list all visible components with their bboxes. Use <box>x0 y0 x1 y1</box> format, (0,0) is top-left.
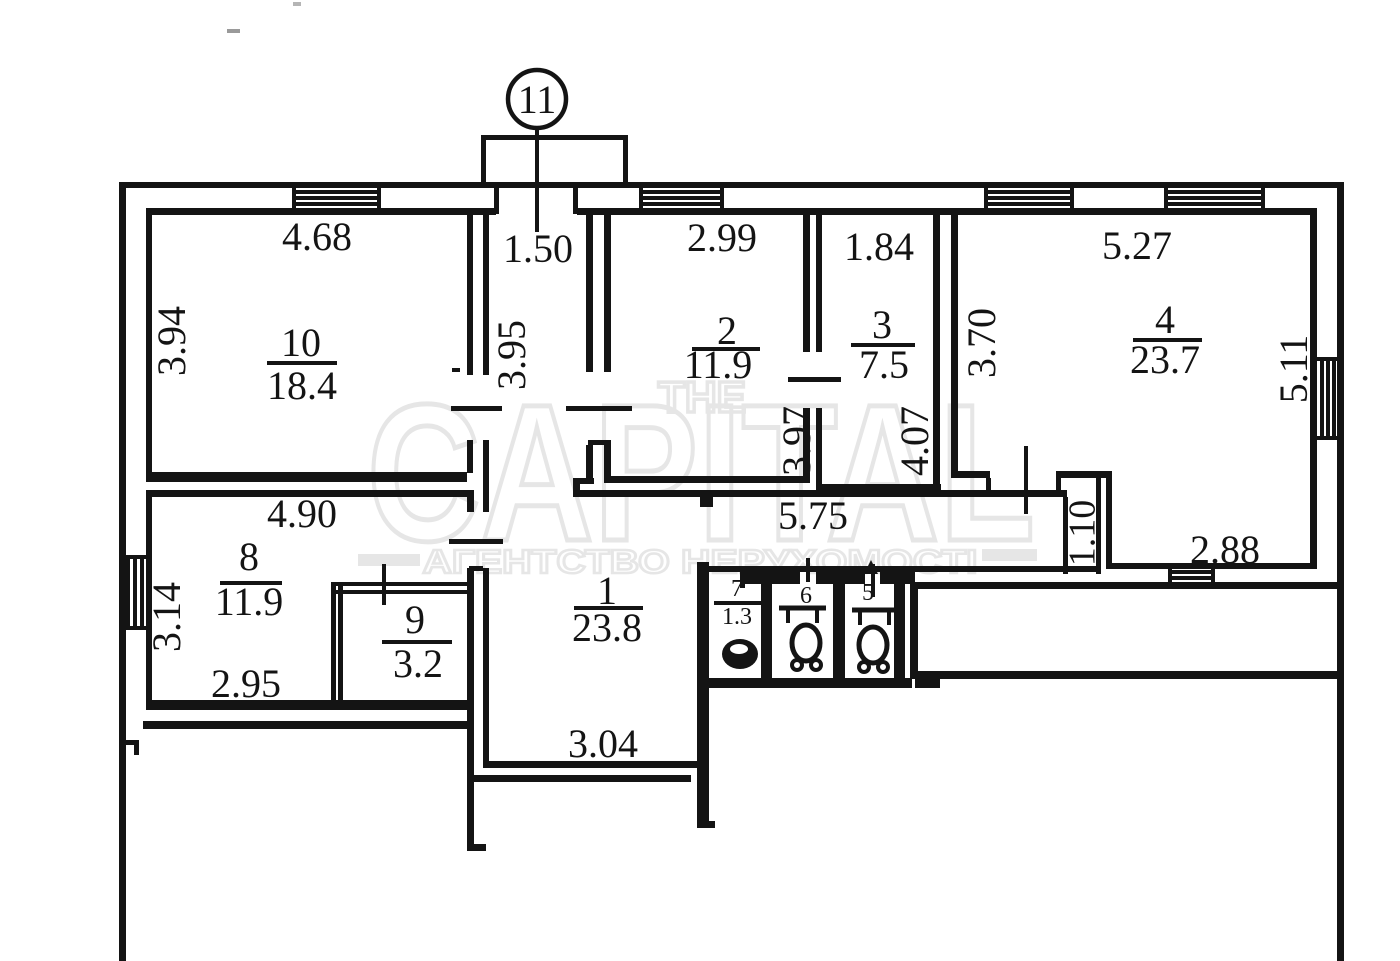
circle 11 <box>508 70 566 128</box>
partition room7/6 <box>761 572 772 688</box>
svg-text:23.8: 23.8 <box>572 605 642 650</box>
shaft 1.10 right wall <box>1096 478 1101 574</box>
door jamb hall-room2 <box>588 440 611 445</box>
svg-text:4.68: 4.68 <box>282 214 352 259</box>
wall hall right line upper <box>586 208 593 372</box>
wall room2/3 line B lower <box>816 408 822 488</box>
partition room6/5 <box>833 572 845 688</box>
window left room8 <box>119 557 152 628</box>
door tick room9 <box>382 564 386 605</box>
svg-text:2.95: 2.95 <box>211 661 281 706</box>
svg-text:1.10: 1.10 <box>1061 500 1103 567</box>
watermark left bar <box>358 554 420 566</box>
window top room10 <box>294 182 379 215</box>
room1 right wall foot <box>697 821 715 828</box>
window top room4 left <box>986 182 1072 215</box>
door tick room4 <box>1024 446 1028 514</box>
door tick room2-3 <box>788 377 841 382</box>
wall left outer <box>119 182 126 961</box>
room9 top wall inner <box>331 590 467 594</box>
svg-text:5.27: 5.27 <box>1102 223 1172 268</box>
svg-text:3: 3 <box>872 302 892 347</box>
bath block bottom wall <box>697 678 912 688</box>
wall hall left line B upper <box>483 208 489 375</box>
corner step horizontal <box>573 478 594 484</box>
corner step vertical <box>573 478 580 497</box>
svg-text:3.04: 3.04 <box>568 721 638 766</box>
room8 top wall <box>146 490 467 497</box>
svg-text:8: 8 <box>239 534 259 579</box>
room4 step wall right segment <box>1056 471 1112 478</box>
corner tick room9-room1 <box>469 566 483 571</box>
window bottom 2.88 <box>1170 563 1213 589</box>
wall right inner room4 <box>1310 208 1317 569</box>
wall left inner room10 <box>146 208 152 473</box>
svg-text:1.84: 1.84 <box>844 224 914 269</box>
room1 bottom wall <box>483 761 697 768</box>
room10 bottom wall <box>146 472 467 482</box>
balcony top wall <box>481 135 628 140</box>
balcony door jamb right <box>573 188 578 214</box>
wall room4 left <box>951 214 958 478</box>
svg-text:1.50: 1.50 <box>503 226 573 271</box>
wall room10/hall pair line A upper <box>467 208 473 375</box>
wall left inner room8 <box>146 490 152 710</box>
room9 top wall outer <box>331 582 467 586</box>
wall room1 left line B lower <box>483 568 489 768</box>
riser line from circle 11 <box>535 128 539 232</box>
room1 right wall <box>697 562 709 828</box>
watermark right bar <box>982 549 1037 561</box>
room1 bottom outer line <box>467 775 691 782</box>
window top room4 right <box>1166 182 1263 215</box>
balcony right wall <box>623 135 628 187</box>
left wall hook drop <box>134 744 139 755</box>
wall hall right line lower <box>586 445 593 484</box>
svg-text:5.11: 5.11 <box>1271 335 1316 404</box>
right section hook <box>915 679 940 688</box>
door jamb step right <box>1056 478 1061 496</box>
sink room7 <box>722 639 758 669</box>
room9 left wall outer <box>331 582 336 710</box>
svg-text:10: 10 <box>281 320 321 365</box>
wall top inner left segment <box>146 208 496 215</box>
toilet room6 <box>779 608 826 670</box>
svg-text:18.4: 18.4 <box>267 363 337 408</box>
room2 bottom wall <box>604 476 810 483</box>
wall room2/3 line B upper <box>816 211 822 352</box>
right section top wall <box>910 582 1344 589</box>
svg-text:5.75: 5.75 <box>778 493 848 538</box>
svg-text:11.9: 11.9 <box>684 342 753 387</box>
svg-text:4.07: 4.07 <box>892 406 937 476</box>
room4 step wall left segment <box>951 471 990 478</box>
room3 bottom wall <box>816 484 941 491</box>
wall top inner right segment <box>577 208 1316 215</box>
svg-text:6: 6 <box>800 583 812 609</box>
corridor bottom line <box>697 566 1101 572</box>
door triangle room5 <box>864 560 878 574</box>
svg-text:7.5: 7.5 <box>859 342 909 387</box>
bath top-left stub <box>697 562 709 584</box>
svg-text:3.14: 3.14 <box>144 582 189 652</box>
left wall hook <box>121 740 139 745</box>
svg-text:4.90: 4.90 <box>267 491 337 536</box>
svg-text:3.95: 3.95 <box>489 320 534 390</box>
wall room2 left line upper <box>604 208 611 372</box>
jamb room7 door <box>740 572 745 588</box>
speck top edge <box>293 2 301 6</box>
wall right outer <box>1337 182 1344 961</box>
wall room10/hall pair line A lower <box>467 440 473 473</box>
door tick room10-hall <box>451 406 502 411</box>
speck top left <box>227 29 240 33</box>
door tick hall-room2 <box>566 406 632 411</box>
door mark room6 <box>806 558 810 582</box>
room5 right wall <box>894 572 905 688</box>
svg-text:1.3: 1.3 <box>722 604 752 630</box>
svg-text:3.70: 3.70 <box>959 308 1004 378</box>
room8 bottom outer line <box>143 721 473 729</box>
wall room3 right <box>933 211 940 491</box>
svg-text:2.99: 2.99 <box>687 215 757 260</box>
door dash room10 wall <box>452 368 460 372</box>
bath room5 top wall <box>880 572 915 584</box>
wall hall left line B mid <box>483 440 489 512</box>
balcony door jamb left <box>494 188 499 214</box>
svg-text:3.94: 3.94 <box>149 306 194 376</box>
balcony left wall <box>481 135 486 187</box>
window top room2 <box>641 182 722 215</box>
wall room8-9 right line A lower <box>467 568 474 850</box>
door tick room8-room1 <box>449 539 503 544</box>
svg-text:3.97: 3.97 <box>774 406 819 476</box>
toilet room5 <box>852 610 898 672</box>
shaft 1.10 left wall <box>1063 497 1068 574</box>
wall foot bottom <box>467 844 486 851</box>
wall room2/3 line A lower <box>803 408 810 483</box>
svg-text:5: 5 <box>862 580 874 606</box>
svg-text:7: 7 <box>731 576 743 602</box>
window right room4 <box>1310 359 1344 438</box>
wall room2 left line lower <box>604 445 611 481</box>
svg-text:2.88: 2.88 <box>1190 527 1260 572</box>
room4 bottom inner line <box>1106 563 1317 569</box>
bath room7 top wall <box>740 572 800 584</box>
svg-text:11: 11 <box>518 77 557 122</box>
svg-text:9: 9 <box>405 597 425 642</box>
right section left wall <box>910 582 918 679</box>
bath room6 top wall <box>816 572 865 584</box>
wall room8-9 right line A upper <box>467 490 474 512</box>
right section bottom wall <box>910 671 1344 679</box>
svg-text:11.9: 11.9 <box>215 579 284 624</box>
room4 step descender <box>1106 471 1112 568</box>
corridor top line <box>573 490 1067 497</box>
door jamb step left <box>986 478 991 496</box>
room8 bottom wall <box>146 700 467 710</box>
svg-text:4: 4 <box>1155 297 1175 342</box>
svg-text:23.7: 23.7 <box>1130 337 1200 382</box>
corridor bump <box>700 497 713 507</box>
room9 left wall inner <box>338 582 343 710</box>
wall room2/3 line A upper <box>803 211 810 352</box>
svg-text:3.2: 3.2 <box>393 641 443 686</box>
door mark room5 <box>871 564 875 597</box>
wall top outer <box>119 182 1344 188</box>
